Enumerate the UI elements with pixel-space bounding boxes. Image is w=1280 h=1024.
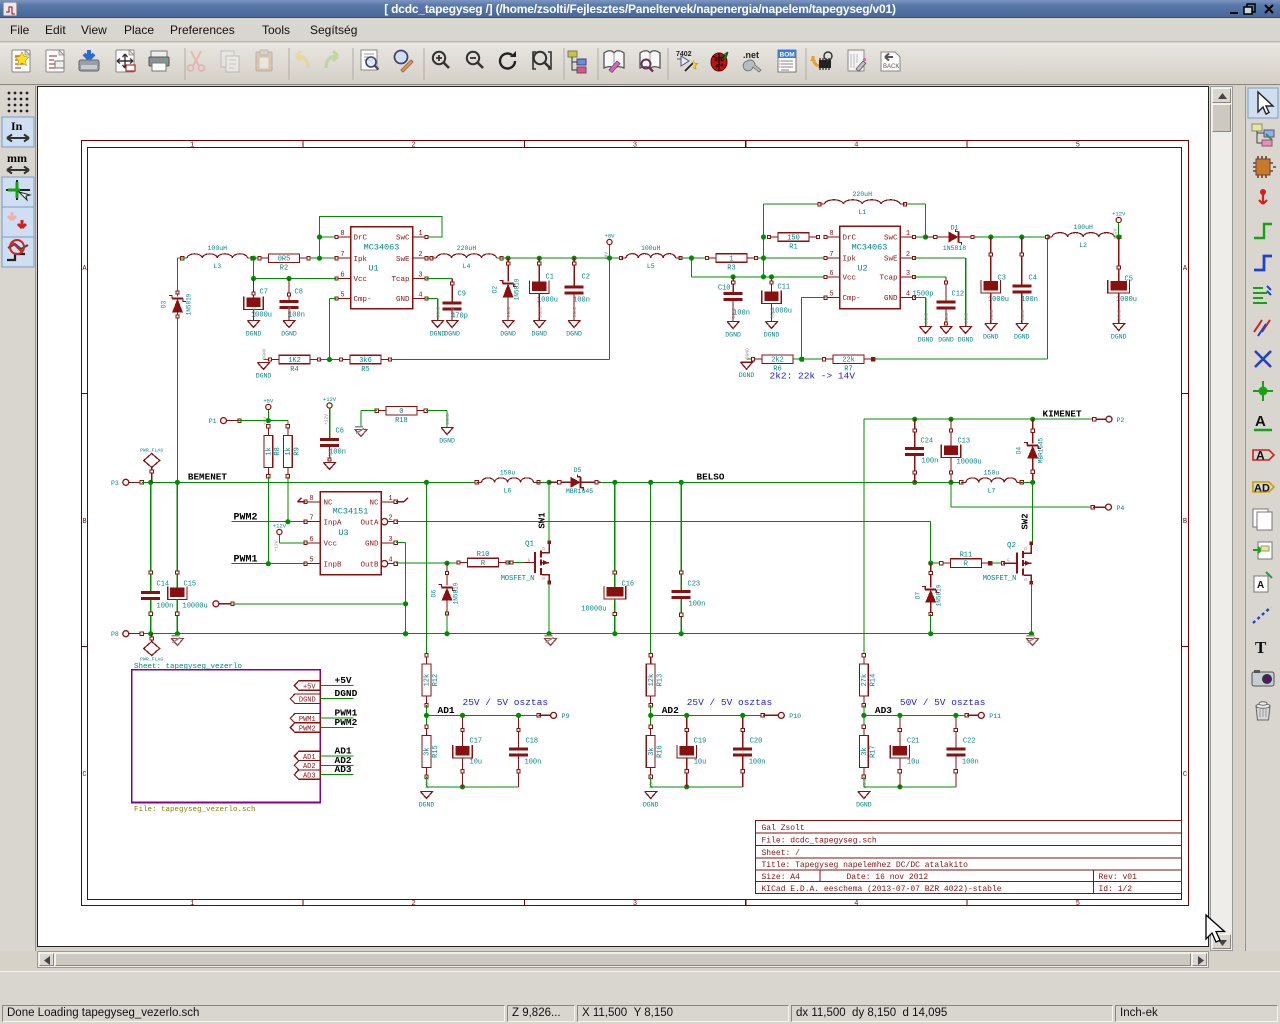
- wire L3 to R2: [248, 257, 261, 259]
- wire L6 to D5: [539, 481, 550, 483]
- wire U2 pin5 feedback: [802, 298, 826, 360]
- svg-text:P10: P10: [789, 713, 801, 720]
- svg-text:C: C: [82, 771, 86, 779]
- svg-text:C7: C7: [260, 289, 268, 297]
- junction rail C15: [175, 631, 180, 636]
- svg-text:10u: 10u: [694, 759, 707, 767]
- svg-text:C8: C8: [295, 289, 303, 297]
- wire U3 GND pin to rail: [396, 542, 406, 633]
- svg-text:+5V: +5V: [335, 675, 352, 686]
- svg-text:D3: D3: [161, 301, 168, 309]
- capacitor C4: [1012, 237, 1038, 324]
- junction AD2 cap rail: [684, 784, 689, 789]
- svg-text:DGND: DGND: [739, 372, 755, 379]
- resistor R9: [284, 425, 302, 478]
- capacitor C16: [581, 571, 634, 634]
- svg-text:A: A: [1255, 413, 1266, 430]
- junction rail C23: [679, 631, 684, 636]
- svg-text:7: 7: [340, 251, 344, 259]
- diode D5: [549, 467, 600, 495]
- diode D7: [915, 563, 943, 634]
- svg-text:1N5818: 1N5818: [943, 245, 967, 252]
- svg-text:3: 3: [633, 142, 637, 150]
- capacitor C6: [320, 408, 346, 461]
- svg-text:BEMENET: BEMENET: [188, 472, 227, 483]
- resistor R17: [860, 725, 878, 778]
- svg-text:2: 2: [418, 251, 422, 259]
- junction U1 pin8: [317, 234, 322, 239]
- svg-text:PWR_FLAG: PWR_FLAG: [140, 448, 163, 454]
- junction U2 vcc node: [761, 274, 766, 279]
- svg-text:DrC: DrC: [843, 235, 857, 243]
- ground R17: [856, 777, 872, 808]
- svg-text:0R5: 0R5: [278, 256, 291, 264]
- svg-text:Cmp-: Cmp-: [843, 295, 861, 303]
- junction U3 gnd rail: [403, 631, 408, 636]
- svg-text:Size: A4: Size: A4: [762, 873, 801, 882]
- capacitor C9: [443, 291, 468, 321]
- diode D2: [492, 258, 521, 320]
- svg-text:R8: R8: [274, 447, 282, 455]
- svg-text:AD1: AD1: [438, 705, 455, 716]
- svg-text:InpB: InpB: [324, 561, 343, 569]
- svg-text:R2: R2: [280, 265, 288, 273]
- svg-text:100n: 100n: [1021, 296, 1038, 304]
- ground R4 left: [264, 359, 272, 361]
- svg-text:DrC: DrC: [354, 235, 368, 243]
- sheet pin DGND: [290, 694, 320, 705]
- junction R7 output node: [1045, 234, 1050, 239]
- svg-text:PWR_FLAG: PWR_FLAG: [140, 657, 163, 663]
- svg-text:D: D: [541, 547, 547, 550]
- inductor L2: [1052, 233, 1114, 237]
- wire P1 to resistors: [238, 410, 288, 426]
- svg-text:5: 5: [309, 557, 313, 565]
- svg-text:DGND: DGND: [419, 802, 435, 809]
- junction C23 tap: [679, 480, 684, 485]
- junction D6 node: [444, 561, 449, 566]
- svg-text:1: 1: [906, 230, 910, 238]
- inductor L7: [966, 478, 1017, 482]
- ground U2 pin2: [958, 312, 974, 343]
- svg-text:P8: P8: [111, 631, 119, 638]
- port P1: [209, 418, 242, 426]
- wire P4 branch: [951, 482, 1093, 507]
- svg-text:+12V: +12V: [273, 523, 287, 530]
- capacitor C23: [672, 571, 706, 634]
- svg-text:SwC: SwC: [884, 235, 898, 243]
- svg-text:SwC: SwC: [396, 235, 410, 243]
- svg-text:100n: 100n: [157, 603, 174, 611]
- svg-text:DGND: DGND: [430, 331, 446, 338]
- ground C7: [253, 310, 255, 321]
- ground R18 left: [355, 427, 367, 437]
- resistor R16: [646, 725, 664, 778]
- svg-text:.net: .net: [743, 50, 759, 60]
- svg-text:C: C: [1183, 771, 1187, 779]
- svg-text:1: 1: [388, 495, 392, 503]
- junction AD1 node: [424, 713, 429, 718]
- svg-text:3: 3: [388, 536, 392, 544]
- svg-text:+12V: +12V: [1112, 211, 1126, 218]
- wire R18 left to ground: [361, 411, 377, 428]
- svg-text:27k: 27k: [861, 674, 869, 687]
- svg-text:0: 0: [399, 408, 403, 416]
- svg-text:+12V: +12V: [323, 396, 337, 403]
- svg-text:R11: R11: [960, 552, 973, 560]
- port P8: [111, 631, 144, 639]
- svg-text:220uH: 220uH: [457, 245, 477, 252]
- svg-text:+5V: +5V: [303, 683, 316, 691]
- svg-text:DGND: DGND: [964, 312, 970, 323]
- wire Q1 source to rail: [548, 583, 550, 634]
- svg-text:3k: 3k: [861, 747, 869, 755]
- svg-text:KICad E.D.A. eeschema (2013-0: KICad E.D.A. eeschema (2013-07-07 BZR 40…: [762, 885, 1002, 894]
- junction C8 node: [286, 276, 291, 281]
- ground D2: [500, 306, 516, 337]
- wire U2 loop L1: [764, 204, 936, 237]
- svg-text:6: 6: [829, 270, 833, 278]
- svg-text:AD3: AD3: [875, 705, 892, 716]
- svg-text:DGND: DGND: [537, 306, 543, 317]
- resistor R11: [940, 552, 992, 569]
- svg-text:5: 5: [1076, 142, 1080, 150]
- svg-text:DGND: DGND: [500, 331, 516, 338]
- capacitor C3: [981, 237, 1009, 324]
- svg-text:DGND: DGND: [256, 373, 272, 380]
- wire SW1 node: [548, 482, 550, 542]
- resistor R7: [822, 355, 874, 374]
- svg-text:Ipk: Ipk: [843, 256, 857, 264]
- ground C11: [764, 307, 780, 338]
- wire U1 feedback loop pin8-pin1: [320, 217, 443, 259]
- wire D1 to L2: [976, 236, 1052, 238]
- resistor R10: [457, 551, 509, 568]
- wire sheet net AD3: [320, 774, 353, 776]
- junction AD2 tap: [648, 480, 653, 485]
- svg-text:150: 150: [787, 234, 800, 242]
- wire SW2 node: [1032, 482, 1034, 543]
- svg-text:8: 8: [340, 230, 344, 238]
- wire AD1 tap: [425, 653, 428, 664]
- svg-text:25V / 5V osztas: 25V / 5V osztas: [687, 697, 773, 708]
- wire ground rail: [142, 633, 1032, 635]
- svg-text:DGND: DGND: [246, 331, 262, 338]
- svg-text:L1: L1: [858, 209, 866, 216]
- wire Vcc rail U1: [254, 258, 337, 278]
- svg-text:Ipk: Ipk: [354, 256, 368, 264]
- svg-text:P4: P4: [1117, 505, 1125, 512]
- resistor R4: [268, 355, 320, 374]
- svg-text:10u: 10u: [470, 759, 483, 767]
- svg-text:U3: U3: [338, 528, 348, 538]
- svg-text:AD2: AD2: [662, 705, 679, 716]
- capacitor C19: [677, 715, 706, 786]
- ground C9: [444, 306, 460, 337]
- svg-text:2: 2: [411, 142, 415, 150]
- svg-text:Date: 16 nov 2012: Date: 16 nov 2012: [847, 873, 929, 882]
- wire R7 feedback to output: [872, 237, 1048, 361]
- svg-text:R5: R5: [361, 366, 369, 374]
- junction C24 bottom: [912, 480, 917, 485]
- svg-text:C12: C12: [952, 291, 965, 299]
- inductor L1: [825, 200, 901, 204]
- ground C1: [531, 306, 547, 337]
- svg-text:C2: C2: [582, 274, 590, 282]
- svg-text:C1: C1: [546, 274, 554, 282]
- junction AD1 row cap2: [516, 713, 521, 718]
- junction PWM2-R9: [285, 519, 290, 524]
- svg-text:3: 3: [906, 270, 910, 278]
- transistor Q2 MOSFET_N: [983, 541, 1034, 584]
- junction D2 node: [506, 256, 511, 261]
- svg-text:DGND: DGND: [252, 306, 258, 317]
- svg-text:OutB: OutB: [360, 561, 379, 569]
- wire U1 pin5 to feedback: [330, 299, 337, 360]
- svg-text:10u: 10u: [907, 759, 920, 767]
- svg-text:DGND: DGND: [643, 802, 659, 809]
- svg-text:7: 7: [309, 515, 313, 523]
- power flag ground: [140, 634, 163, 663]
- diode D3: [161, 258, 193, 482]
- wire R9 to PWM2: [287, 476, 289, 521]
- port P4: [1091, 504, 1124, 512]
- svg-text:DGND: DGND: [444, 331, 460, 338]
- svg-text:DGND: DGND: [770, 307, 776, 318]
- sheet pin +5V: [294, 681, 320, 692]
- junction U2 pin1 node: [923, 234, 928, 239]
- power +8V: [604, 233, 616, 261]
- port P3: [111, 479, 144, 487]
- svg-text:Vcc: Vcc: [843, 275, 857, 283]
- resistor R14: [860, 653, 878, 706]
- svg-text:50V / 5V osztas: 50V / 5V osztas: [900, 697, 986, 708]
- svg-text:100n: 100n: [525, 759, 542, 767]
- svg-text:R17: R17: [870, 745, 878, 758]
- svg-text:L7: L7: [988, 487, 996, 494]
- svg-text:6: 6: [309, 536, 313, 544]
- svg-text:C24: C24: [921, 438, 934, 446]
- svg-text:2: 2: [411, 900, 415, 908]
- svg-text:C20: C20: [750, 738, 763, 746]
- wire U2 pin4 to ground: [914, 298, 926, 327]
- svg-text:P9: P9: [562, 713, 570, 720]
- wire PWM2: [232, 521, 306, 523]
- svg-text:1k: 1k: [266, 447, 274, 455]
- junction C24 top: [912, 417, 917, 422]
- svg-text:P3: P3: [111, 480, 119, 487]
- svg-text:3k6: 3k6: [359, 357, 372, 365]
- junction C13 top: [948, 417, 953, 422]
- resistor R5: [339, 355, 391, 374]
- svg-text:+5V: +5V: [263, 398, 274, 405]
- capacitor C24: [905, 419, 938, 482]
- svg-text:1: 1: [190, 900, 194, 908]
- wire AD2 row: [651, 705, 763, 726]
- junction rail Q1: [547, 631, 552, 636]
- ground C2: [566, 306, 582, 337]
- svg-text:R16: R16: [656, 745, 664, 758]
- svg-text:Q1: Q1: [525, 541, 535, 549]
- svg-text:C4: C4: [1029, 275, 1037, 283]
- svg-text:100n: 100n: [922, 458, 939, 466]
- ground Q1 source: [545, 636, 557, 646]
- resistor R8: [264, 425, 282, 478]
- capacitor C1: [530, 258, 558, 320]
- junction AD2 row cap1: [684, 713, 689, 718]
- svg-text:InpA: InpA: [324, 519, 343, 527]
- svg-text:DGND: DGND: [445, 413, 451, 424]
- svg-text:DGND: DGND: [924, 312, 930, 323]
- ground C3: [983, 309, 999, 340]
- junction D3 input node: [175, 480, 180, 485]
- junction +12V output node: [1116, 234, 1121, 239]
- IC U2 MC34063: [824, 226, 916, 309]
- inductor L5: [626, 254, 676, 258]
- wire R3 to U2: [756, 257, 825, 259]
- diode D4: [1016, 419, 1045, 482]
- diode D6: [431, 563, 460, 634]
- junction ground port node: [403, 601, 408, 606]
- svg-text:Sheet: /: Sheet: /: [762, 849, 801, 858]
- junction AD2 node: [648, 713, 653, 718]
- svg-text:DGND: DGND: [1111, 334, 1127, 341]
- svg-text:8: 8: [309, 495, 313, 503]
- svg-text:L3: L3: [213, 263, 221, 270]
- svg-text:DGND: DGND: [287, 306, 293, 317]
- svg-text:L2: L2: [1079, 242, 1087, 249]
- junction C7 node: [251, 276, 256, 281]
- svg-text:C17: C17: [470, 738, 483, 746]
- svg-text:+12V: +12V: [324, 414, 330, 425]
- resistor R6: [751, 355, 803, 374]
- junction C3 node: [988, 234, 993, 239]
- svg-text:150u: 150u: [984, 469, 1000, 476]
- wire AD2 tap: [649, 653, 652, 664]
- junction rail Q2: [1029, 631, 1034, 636]
- wire Q2 source to rail: [1030, 583, 1032, 634]
- svg-text:4: 4: [854, 142, 858, 150]
- svg-text:3: 3: [633, 900, 637, 908]
- hierarchical sheet tapegyseg_vezerlo: [132, 663, 321, 814]
- svg-text:4: 4: [388, 557, 392, 565]
- svg-text:MC34063: MC34063: [364, 243, 400, 253]
- svg-text:C22: C22: [963, 738, 976, 746]
- svg-text:D: D: [1023, 547, 1029, 550]
- svg-text:C23: C23: [688, 581, 701, 589]
- ground C10: [725, 307, 741, 338]
- port P11: [965, 712, 1001, 720]
- power +12V U3: [273, 523, 306, 552]
- svg-text:100uH: 100uH: [208, 245, 228, 252]
- svg-text:Q2: Q2: [1007, 542, 1016, 550]
- wire sheet net +5V: [320, 685, 353, 687]
- junction AD3 cap rail: [897, 784, 902, 789]
- svg-text:R10: R10: [477, 551, 490, 559]
- svg-text:NC: NC: [324, 499, 334, 507]
- inductor L4: [437, 254, 497, 258]
- capacitor C17: [453, 715, 482, 786]
- svg-text:DGND: DGND: [1117, 309, 1123, 320]
- junction AD3 row cap2: [953, 713, 958, 718]
- ground U2 pin4: [918, 312, 934, 343]
- power flag input: [140, 448, 163, 483]
- junction rail C14: [148, 631, 153, 636]
- svg-text:C5: C5: [1125, 276, 1133, 284]
- ground C5: [1111, 309, 1127, 340]
- wire R2 to U1 pin7: [310, 257, 337, 259]
- svg-text:C13: C13: [958, 438, 971, 446]
- junction D4 top: [1030, 417, 1035, 422]
- svg-text:D6: D6: [431, 590, 438, 598]
- wire PWM1: [232, 563, 306, 565]
- svg-text:1: 1: [190, 142, 194, 150]
- svg-text:1: 1: [729, 255, 733, 263]
- port P2: [1093, 416, 1125, 424]
- svg-text:+5V: +5V: [262, 417, 268, 426]
- wire R10 to Q1 gate: [508, 562, 524, 564]
- wire C15 branch: [176, 482, 178, 587]
- wire R6 to R7: [794, 358, 834, 360]
- svg-text:SwE: SwE: [884, 256, 898, 264]
- svg-text:PWM2: PWM2: [335, 717, 358, 728]
- wire sheet net AD1: [320, 755, 353, 757]
- capacitor C10: [718, 277, 750, 322]
- svg-text:A: A: [82, 265, 87, 273]
- svg-text:P1: P1: [209, 418, 217, 425]
- svg-text:100n: 100n: [573, 297, 590, 305]
- wire C14 branch: [150, 482, 152, 591]
- wire U1 pin3 to C9: [427, 279, 454, 302]
- svg-text:2k2: 2k2: [771, 357, 784, 365]
- svg-text:D5: D5: [574, 467, 582, 474]
- svg-text:220uH: 220uH: [852, 191, 872, 198]
- svg-text:R14: R14: [870, 674, 878, 687]
- svg-text:T: T: [1255, 638, 1267, 657]
- junction PWR_FLAG node: [148, 480, 153, 485]
- svg-text:BACK: BACK: [883, 64, 899, 70]
- svg-text:Id: 1/2: Id: 1/2: [1099, 885, 1133, 894]
- capacitor C5: [1108, 237, 1137, 324]
- svg-text:1N5819: 1N5819: [514, 278, 521, 300]
- svg-text:1N5819: 1N5819: [186, 293, 193, 315]
- svg-text:5: 5: [829, 291, 833, 299]
- power +5V: [262, 398, 274, 426]
- svg-text:C15: C15: [184, 581, 197, 589]
- svg-text:D4: D4: [1016, 447, 1023, 455]
- capacitor C18: [509, 715, 541, 786]
- svg-text:4: 4: [854, 900, 858, 908]
- svg-text:R18: R18: [395, 417, 408, 425]
- svg-text:R13: R13: [656, 674, 664, 687]
- svg-text:C21: C21: [907, 738, 920, 746]
- svg-text:100uH: 100uH: [641, 245, 661, 252]
- svg-text:8: 8: [829, 230, 833, 238]
- svg-text:C9: C9: [458, 291, 466, 299]
- svg-text:100n: 100n: [749, 759, 766, 767]
- junction AD1 tap node: [424, 480, 429, 485]
- sheet pin PWM1: [290, 714, 320, 725]
- svg-text:6: 6: [340, 272, 344, 280]
- ground R6 left: [747, 358, 754, 360]
- svg-text:Gal Zsolt: Gal Zsolt: [762, 824, 805, 833]
- resistor R13: [646, 653, 664, 706]
- svg-text:SwE: SwE: [396, 256, 410, 264]
- svg-text:C19: C19: [694, 738, 707, 746]
- svg-text:A: A: [1183, 265, 1188, 273]
- svg-text:D2: D2: [492, 286, 499, 294]
- svg-text:KIMENET: KIMENET: [1043, 409, 1082, 420]
